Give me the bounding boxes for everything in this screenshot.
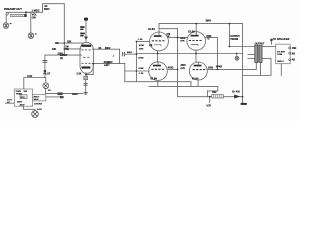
svg-text:.05 600V: .05 600V xyxy=(103,62,113,64)
junction rail dots xyxy=(229,23,231,25)
svg-text:5%: 5% xyxy=(65,48,69,51)
wire to speaker riser xyxy=(271,40,273,44)
svg-text:SPKR: SPKR xyxy=(216,67,223,69)
tube A internals xyxy=(152,32,165,46)
junction bias stub xyxy=(209,96,211,98)
svg-text:2.2K: 2.2K xyxy=(77,73,82,75)
svg-text:GND 0: GND 0 xyxy=(277,61,284,63)
arrow B+ xyxy=(234,95,240,99)
svg-text:Ω: Ω xyxy=(168,36,170,38)
node cathode coupling junction xyxy=(92,63,94,65)
wire plate drop to bottom xyxy=(178,69,208,96)
svg-text:.1 25: .1 25 xyxy=(138,73,144,75)
node tube D plate junction xyxy=(217,69,219,71)
junction cathode xyxy=(85,74,87,76)
resistor bottom B+ xyxy=(212,95,224,98)
heater switch dashes xyxy=(58,92,63,95)
capacitor coupling upper xyxy=(122,52,125,56)
junction bus dots xyxy=(136,41,138,43)
filter cap bar xyxy=(241,103,247,105)
wire tube C cathode xyxy=(157,80,159,86)
wire cathode down xyxy=(85,73,87,76)
svg-text:B+ 410: B+ 410 xyxy=(232,90,240,93)
output tube C xyxy=(149,62,168,81)
tube V1 envelope xyxy=(80,42,93,73)
junction dots left column xyxy=(64,42,66,44)
rectifier box xyxy=(33,95,46,102)
svg-text:.1: .1 xyxy=(113,56,116,58)
V1 plate arrow xyxy=(84,37,88,40)
svg-text:TO SPEAKER: TO SPEAKER xyxy=(273,38,290,41)
svg-text:470K: 470K xyxy=(139,44,145,47)
wire xfmr secondary to box xyxy=(262,46,276,48)
junction node at volume xyxy=(25,11,27,13)
pilot lamp xyxy=(43,83,49,89)
svg-text:1500: 1500 xyxy=(208,68,214,70)
svg-text:20%: 20% xyxy=(104,65,108,67)
jack J1 preamp out xyxy=(6,12,8,23)
wire 470K drop xyxy=(125,53,136,55)
junction bottom xyxy=(242,96,244,98)
wire secondary bottom drop xyxy=(260,62,262,75)
svg-text:OUTPUT: OUTPUT xyxy=(255,42,265,45)
output transformer T1 xyxy=(255,45,262,63)
svg-text:RECT: RECT xyxy=(34,96,40,98)
output tube B xyxy=(187,32,206,51)
wire bus vertical xyxy=(135,41,137,81)
svg-text:16Ω: 16Ω xyxy=(292,48,297,50)
wire pilot feed xyxy=(44,78,47,83)
resistor cathode xyxy=(84,76,88,80)
svg-text:470K: 470K xyxy=(138,57,144,60)
svg-text:4.7K: 4.7K xyxy=(206,105,211,108)
wire V1 left stub upper xyxy=(64,48,81,50)
wire transformer secondary loop xyxy=(243,58,272,75)
svg-text:PREAMP OUT: PREAMP OUT xyxy=(4,7,22,11)
svg-text:.1 25: .1 25 xyxy=(138,39,144,41)
wire cathode jog xyxy=(190,82,192,87)
wire bottom heater horizontal xyxy=(46,93,83,95)
PS wires xyxy=(5,97,60,111)
cap bypass marks xyxy=(84,84,88,86)
wire B+ riser xyxy=(229,46,254,48)
svg-text:(x2): (x2) xyxy=(181,68,185,70)
svg-text:EL84: EL84 xyxy=(148,27,155,31)
wire transformer drive vertical xyxy=(228,24,230,47)
wire V1 lower right xyxy=(92,63,125,65)
svg-text:10%: 10% xyxy=(139,48,143,50)
wire cathode resistor bottom xyxy=(85,80,87,95)
wire lower coupling drop xyxy=(124,64,126,82)
ground stub under cathode xyxy=(84,93,88,94)
svg-text:4Ω: 4Ω xyxy=(292,58,295,61)
wire tube B to D link xyxy=(195,50,197,62)
svg-text:6.3V: 6.3V xyxy=(27,75,32,78)
svg-text:600V: 600V xyxy=(44,8,50,11)
svg-text:600V: 600V xyxy=(105,48,111,50)
wire tube C plate xyxy=(167,68,177,70)
output tube D xyxy=(189,62,207,80)
wire bias tap down xyxy=(209,97,211,103)
tube C internals xyxy=(151,62,164,70)
terminals xyxy=(289,47,291,49)
svg-text:2000: 2000 xyxy=(181,65,187,67)
node transformer drive junction xyxy=(229,46,231,48)
svg-text:OUTPUT: OUTPUT xyxy=(230,36,240,38)
power transformer box xyxy=(14,89,32,106)
shielded cable R1 xyxy=(11,12,27,17)
node bus lower junction xyxy=(136,70,138,72)
wire top grid branch xyxy=(136,40,149,42)
wire screen grid rail xyxy=(136,53,242,55)
wire cathode drop xyxy=(207,86,217,96)
svg-text:EL84: EL84 xyxy=(192,77,199,81)
wire preamp out jack to junction xyxy=(8,11,32,13)
svg-text:8Ω: 8Ω xyxy=(292,53,295,55)
wire cathode loop right xyxy=(86,64,93,75)
wire coupling between top tubes xyxy=(178,37,188,39)
wire tube B top xyxy=(195,24,197,32)
svg-text:CW: CW xyxy=(32,16,37,19)
switch mark xyxy=(60,96,64,98)
tube B internals xyxy=(189,32,202,46)
svg-text:33K: 33K xyxy=(67,41,72,44)
svg-text:COM: COM xyxy=(277,54,282,56)
svg-text:Ω: Ω xyxy=(208,39,210,41)
svg-text:PILOT: PILOT xyxy=(44,73,51,75)
jack circle B xyxy=(28,33,34,39)
screen rail end cap xyxy=(236,53,238,55)
wire 220K line xyxy=(45,54,82,56)
svg-text:1M: 1M xyxy=(55,42,58,45)
arrow to speaker xyxy=(270,38,273,41)
wire tube A to C link xyxy=(157,51,159,62)
V1 mid marks xyxy=(83,56,89,58)
svg-text:CHOKE: CHOKE xyxy=(34,103,42,105)
node bus mid junction xyxy=(136,53,138,55)
wire inter-tube vertical xyxy=(177,29,179,70)
tube D internals xyxy=(193,62,206,70)
junction plate dots xyxy=(177,37,179,39)
wire plate rail top xyxy=(159,23,243,25)
svg-text:EL84: EL84 xyxy=(188,29,195,33)
svg-text:SW: SW xyxy=(24,91,28,93)
wire bus bottom left xyxy=(125,81,191,83)
wire bottom B+ run2 xyxy=(223,96,242,98)
wire pilot to bottom xyxy=(45,89,47,94)
node grid stub junction xyxy=(64,48,66,50)
wire cathode branch down xyxy=(44,55,46,77)
wire input vertical to jack B xyxy=(30,12,32,32)
speaker terminal box xyxy=(276,44,291,64)
svg-text:10Ω: 10Ω xyxy=(212,92,217,94)
wire cathode bus y86 xyxy=(149,85,218,87)
wire plate loop top xyxy=(159,28,178,30)
wire tube A top xyxy=(158,24,160,32)
svg-text:S1: S1 xyxy=(48,90,51,92)
output tube A xyxy=(150,32,169,51)
label above V1 blob xyxy=(84,18,88,21)
svg-text:40uF: 40uF xyxy=(34,98,40,101)
wire V1 plate top lead xyxy=(85,18,87,43)
V1 lower plate xyxy=(82,63,91,68)
wire tube D plate to transformer xyxy=(207,68,229,70)
svg-text:EL84: EL84 xyxy=(151,77,158,81)
wire tube A plate right xyxy=(168,37,178,39)
jack circle A xyxy=(3,23,9,29)
node screen rail junction B xyxy=(195,53,197,55)
svg-text:10%: 10% xyxy=(180,41,184,43)
svg-text:470Ω: 470Ω xyxy=(168,66,174,69)
wire tube D cathode xyxy=(197,80,199,86)
wire rail right end down xyxy=(242,24,244,97)
svg-text:600V: 600V xyxy=(127,52,133,54)
svg-text:360V: 360V xyxy=(206,20,212,23)
AC plug circle xyxy=(32,111,39,118)
wire bottom B+ run xyxy=(207,96,212,98)
svg-text:22K: 22K xyxy=(52,49,57,51)
svg-text:6.3V: 6.3V xyxy=(37,109,42,111)
wire heater run left xyxy=(24,78,45,90)
svg-text:1 MEG: 1 MEG xyxy=(32,8,40,12)
wire feedback drop xyxy=(280,64,282,76)
wire staircase to coupling cap riser xyxy=(26,4,64,55)
node rail tube B junction xyxy=(195,23,197,25)
capacitor C2 bars xyxy=(42,61,47,63)
capacitor lower coupling bars xyxy=(107,62,109,66)
wire cap to 470K node xyxy=(119,49,121,63)
wire tube B plate right xyxy=(205,38,218,70)
svg-text:(2): (2) xyxy=(60,57,63,60)
wire xfmr left taps xyxy=(248,54,255,56)
label V1 pin blobs xyxy=(80,26,84,28)
wire V1 upper right to coupling cap xyxy=(92,48,119,50)
jack tick marks xyxy=(10,23,12,24)
svg-text:TRANS: TRANS xyxy=(230,38,238,41)
wire grid line y43 xyxy=(56,42,83,44)
wire filter cap drop xyxy=(242,97,244,103)
svg-text:470K: 470K xyxy=(138,67,144,70)
V1 upper plate xyxy=(82,45,92,50)
wire primary bottom return xyxy=(229,62,256,69)
svg-text:350V: 350V xyxy=(17,102,23,104)
wire grid C feed xyxy=(125,70,149,72)
node screen rail junction A xyxy=(157,53,159,55)
svg-text:40uF: 40uF xyxy=(20,103,26,106)
